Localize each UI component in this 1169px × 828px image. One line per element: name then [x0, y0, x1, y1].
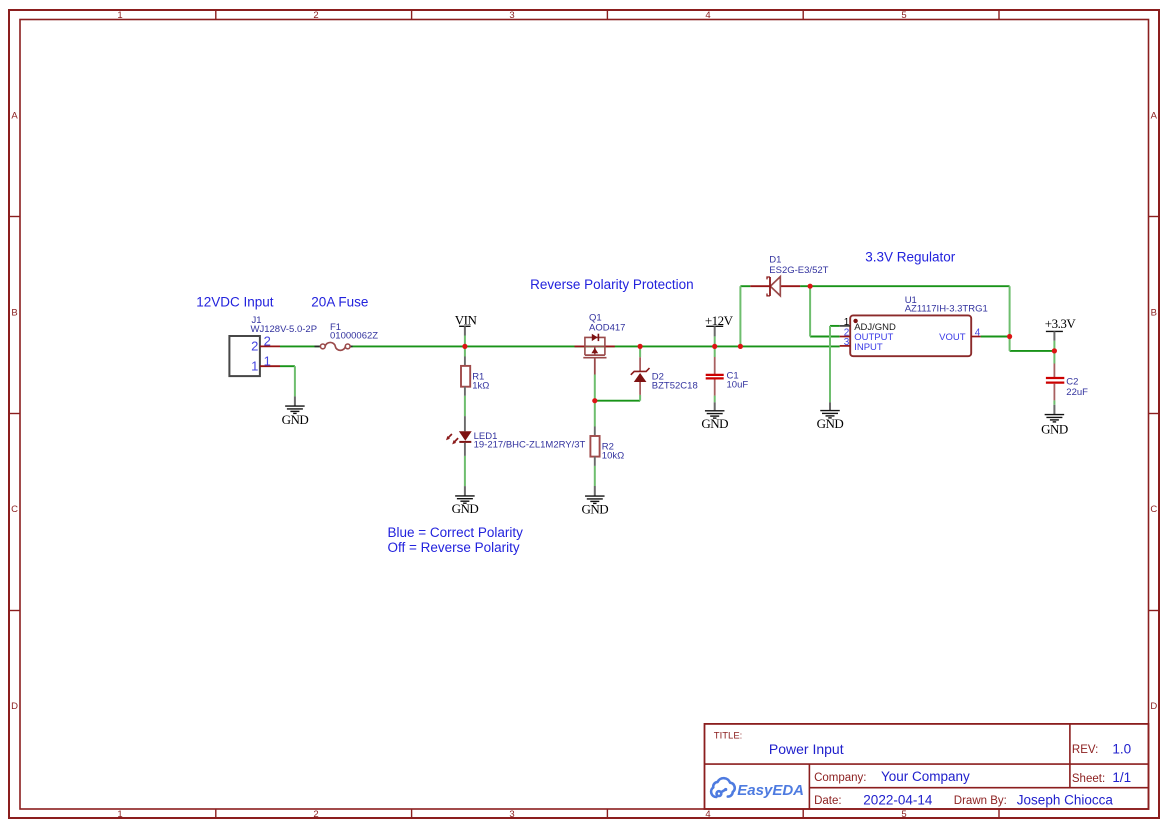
svg-text:D: D [1150, 701, 1157, 712]
svg-text:Date:: Date: [814, 795, 842, 807]
svg-text:D1: D1 [769, 254, 781, 265]
svg-text:19-217/BHC-ZL1M2RY/3T: 19-217/BHC-ZL1M2RY/3T [474, 439, 586, 450]
svg-text:AZ1117IH-3.3TRG1: AZ1117IH-3.3TRG1 [905, 304, 988, 315]
svg-text:Sheet:: Sheet: [1072, 773, 1105, 785]
svg-text:3: 3 [509, 10, 514, 21]
svg-text:2: 2 [313, 809, 318, 820]
svg-text:D: D [11, 701, 18, 712]
svg-text:GND: GND [452, 501, 479, 516]
svg-text:10kΩ: 10kΩ [602, 451, 624, 462]
svg-text:1.0: 1.0 [1112, 742, 1131, 757]
svg-text:Blue = Correct Polarity: Blue = Correct Polarity [388, 525, 524, 540]
svg-text:3.3V Regulator: 3.3V Regulator [865, 249, 956, 264]
svg-text:10uF: 10uF [727, 380, 749, 391]
svg-text:ADJ/GND: ADJ/GND [854, 322, 896, 333]
svg-text:VIN: VIN [455, 313, 478, 328]
svg-text:Power Input: Power Input [769, 741, 844, 757]
svg-text:VOUT: VOUT [939, 332, 966, 343]
svg-text:INPUT: INPUT [854, 342, 883, 353]
svg-text:REV:: REV: [1072, 744, 1098, 756]
svg-text:GND: GND [282, 412, 309, 427]
svg-text:20A Fuse: 20A Fuse [311, 294, 368, 309]
svg-text:Drawn By:: Drawn By: [954, 795, 1007, 807]
svg-text:2: 2 [313, 10, 318, 21]
svg-text:TITLE:: TITLE: [714, 731, 743, 742]
svg-text:Off = Reverse Polarity: Off = Reverse Polarity [388, 540, 520, 555]
svg-text:B: B [11, 307, 17, 318]
svg-text:2: 2 [251, 338, 258, 353]
svg-text:GND: GND [817, 416, 844, 431]
svg-text:1/1: 1/1 [1112, 770, 1131, 785]
svg-text:GND: GND [581, 501, 608, 516]
svg-text:+3.3V: +3.3V [1045, 316, 1077, 331]
svg-text:01000062Z: 01000062Z [330, 331, 378, 342]
svg-text:A: A [11, 111, 18, 122]
svg-text:AOD417: AOD417 [589, 322, 625, 333]
svg-text:ES2G-E3/52T: ES2G-E3/52T [769, 265, 828, 276]
svg-text:1: 1 [117, 10, 122, 21]
svg-text:EasyEDA: EasyEDA [737, 782, 804, 799]
svg-text:C2: C2 [1066, 376, 1078, 387]
svg-text:1: 1 [251, 358, 258, 373]
svg-text:Joseph Chiocca: Joseph Chiocca [1017, 793, 1114, 808]
svg-text:BZT52C18: BZT52C18 [652, 381, 698, 392]
svg-text:1kΩ: 1kΩ [472, 380, 489, 391]
svg-text:3: 3 [844, 337, 850, 348]
svg-text:1: 1 [264, 354, 271, 369]
svg-text:12VDC Input: 12VDC Input [196, 294, 274, 309]
svg-text:5: 5 [901, 809, 906, 820]
svg-text:C: C [1150, 504, 1157, 515]
svg-text:Reverse Polarity Protection: Reverse Polarity Protection [530, 277, 694, 292]
svg-text:1: 1 [844, 317, 850, 328]
svg-text:B: B [1151, 307, 1157, 318]
svg-text:2022-04-14: 2022-04-14 [863, 793, 933, 808]
svg-text:GND: GND [1041, 421, 1068, 436]
svg-text:22uF: 22uF [1066, 387, 1088, 398]
svg-text:2: 2 [264, 334, 271, 349]
svg-text:5: 5 [901, 10, 906, 21]
svg-text:Company:: Company: [814, 772, 866, 784]
svg-text:WJ128V-5.0-2P: WJ128V-5.0-2P [251, 324, 318, 335]
svg-text:4: 4 [705, 10, 710, 21]
svg-text:C: C [11, 504, 18, 515]
svg-text:Your Company: Your Company [881, 769, 970, 784]
svg-text:1: 1 [117, 809, 122, 820]
svg-text:4: 4 [975, 327, 981, 338]
svg-text:GND: GND [701, 416, 728, 431]
svg-text:4: 4 [705, 809, 710, 820]
svg-text:3: 3 [509, 809, 514, 820]
svg-text:A: A [1151, 111, 1158, 122]
